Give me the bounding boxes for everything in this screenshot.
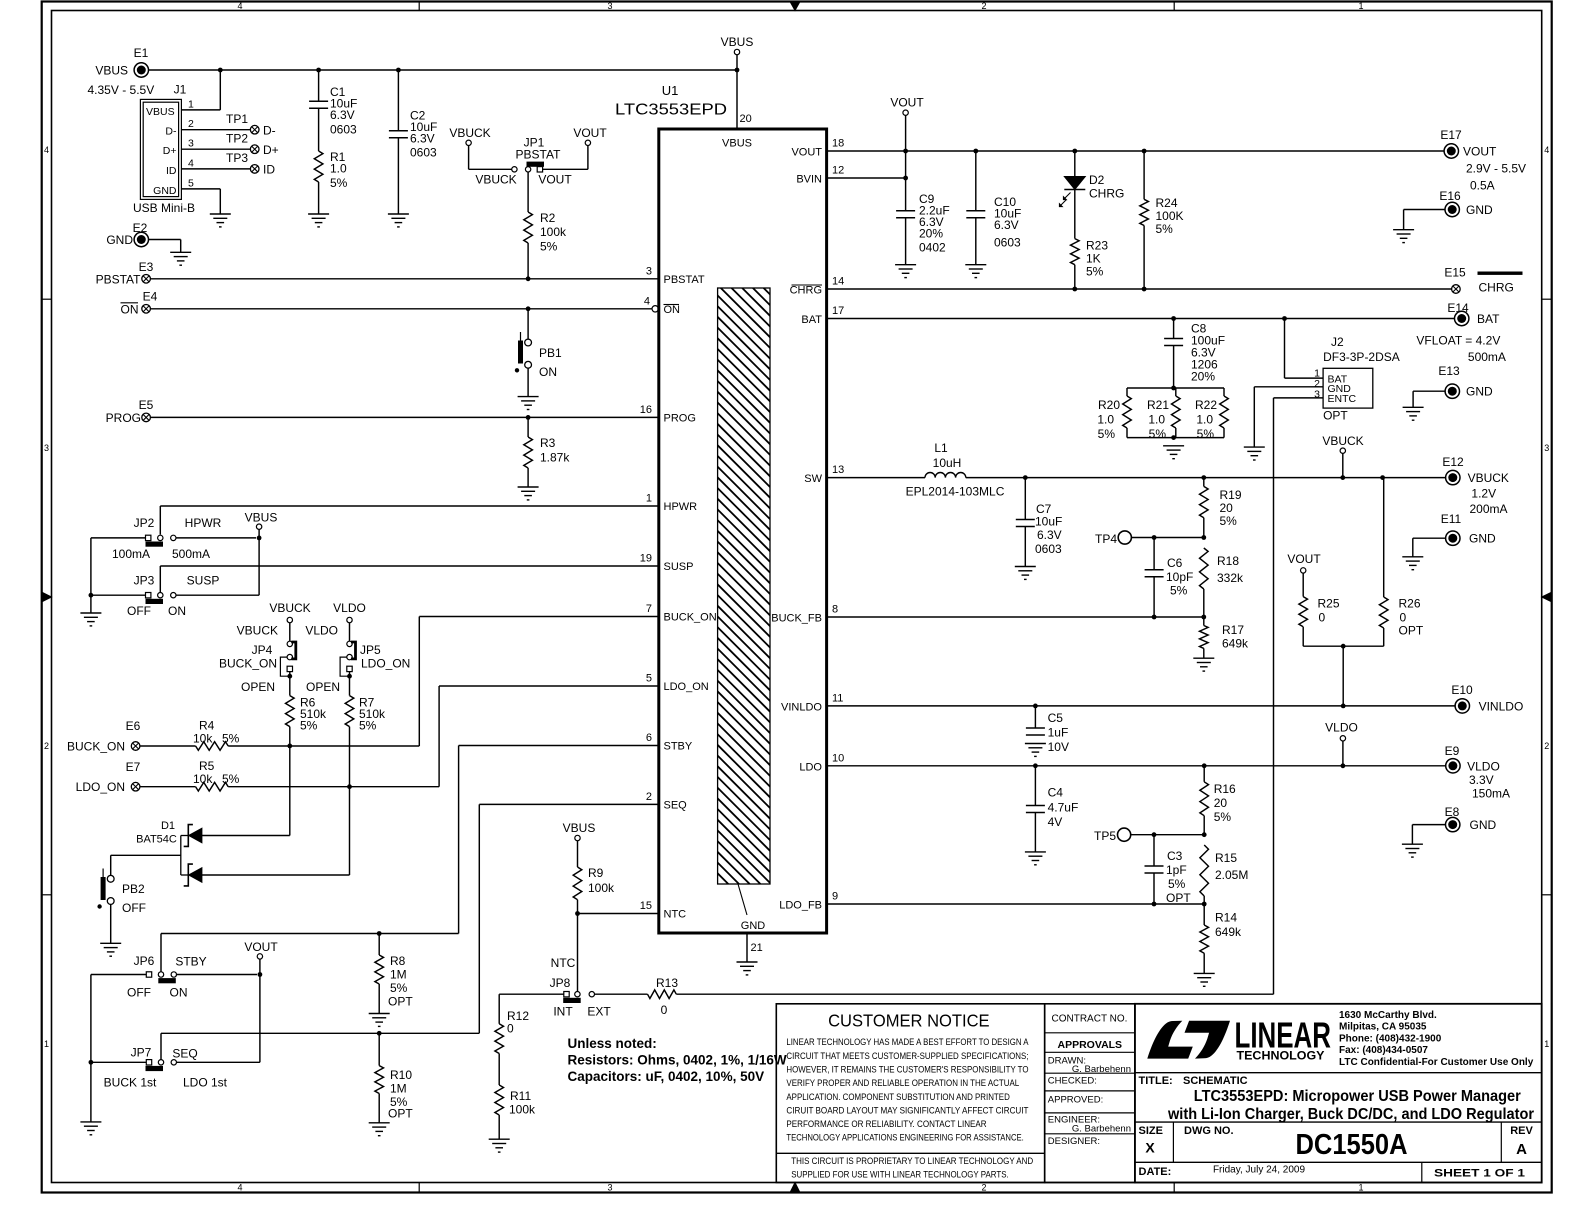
svg-text:20%: 20% bbox=[1191, 370, 1215, 384]
wire C9 to ground bbox=[905, 218, 907, 265]
wire VBUS rail bbox=[148, 69, 737, 71]
wire C4 stub bbox=[1034, 766, 1036, 806]
junction BUCK_FB/C6 bbox=[1152, 615, 1157, 620]
frame right center arrow bbox=[1542, 593, 1551, 602]
capacitor C1 bbox=[309, 101, 328, 108]
svg-text:1pF: 1pF bbox=[1166, 863, 1187, 877]
wire R11 to ground bbox=[498, 1115, 500, 1139]
wire E8 to ground bbox=[1412, 825, 1446, 845]
svg-text:2: 2 bbox=[646, 791, 652, 803]
label PBSTAT JP1 bbox=[516, 147, 562, 161]
turret E12 bbox=[1446, 470, 1460, 484]
junction PROG/R3 bbox=[526, 415, 531, 420]
wire BAT net bbox=[827, 318, 1455, 320]
junction BVIN/C9 bbox=[903, 176, 908, 181]
junction LDO_FB/C3 bbox=[1152, 902, 1157, 907]
svg-text:USB Mini-B: USB Mini-B bbox=[133, 201, 195, 215]
ground U1 bbox=[737, 962, 758, 975]
label C2 bbox=[410, 109, 437, 160]
svg-text:R23: R23 bbox=[1086, 239, 1108, 253]
label C5 bbox=[1048, 711, 1069, 754]
label U1 SUSP pin bbox=[664, 561, 694, 573]
resistor R25 bbox=[1299, 597, 1308, 627]
label R9 bbox=[588, 866, 615, 895]
label LTC3553EPD bbox=[615, 102, 727, 119]
wire R3 to ground bbox=[527, 468, 529, 487]
node VLDO bbox=[1325, 721, 1358, 742]
svg-text:0402: 0402 bbox=[919, 241, 946, 255]
label U1 bbox=[662, 83, 679, 98]
label E2 bbox=[133, 221, 148, 235]
pin 10 label bbox=[832, 752, 844, 764]
label E15 bbox=[1444, 266, 1466, 280]
node VOUT rail bbox=[890, 96, 924, 116]
pin 18 label bbox=[832, 138, 844, 150]
wire J1 pin2 to TP1 bbox=[181, 129, 250, 131]
svg-text:R15: R15 bbox=[1215, 851, 1237, 865]
svg-text:R24: R24 bbox=[1156, 196, 1178, 210]
wire BAT to C8 bbox=[1173, 319, 1175, 339]
svg-text:10uH: 10uH bbox=[933, 456, 962, 470]
svg-text:2: 2 bbox=[44, 741, 49, 751]
label BAT E14 bbox=[1477, 312, 1500, 326]
label GND E13 bbox=[1466, 385, 1493, 399]
pin 4 label bbox=[644, 296, 650, 308]
svg-text:3.3V: 3.3V bbox=[1469, 773, 1494, 787]
label E9 bbox=[1445, 744, 1460, 758]
ground E2 bbox=[170, 252, 191, 265]
label J1 VBUS pin bbox=[146, 106, 175, 118]
label JP3 bbox=[134, 574, 155, 588]
wire E16 to ground bbox=[1404, 210, 1446, 230]
svg-text:5%: 5% bbox=[300, 719, 318, 733]
ground E13 bbox=[1403, 407, 1424, 420]
resistor R22 bbox=[1220, 388, 1229, 438]
wire TP5 line bbox=[1131, 834, 1205, 836]
label C1 bbox=[330, 85, 357, 137]
svg-text:16: 16 bbox=[640, 404, 652, 416]
terminal E5 bbox=[142, 413, 151, 422]
label R25 bbox=[1318, 597, 1340, 625]
wire VBUS to JP2 bbox=[176, 529, 259, 538]
junction CHRG/R24 bbox=[1142, 287, 1147, 292]
label CONTRACT NO. bbox=[1052, 1014, 1128, 1025]
wire R6 to D1 bbox=[289, 727, 291, 836]
ground J1 bbox=[210, 214, 231, 227]
pin 12 label bbox=[832, 165, 844, 177]
label J1 D- pin bbox=[165, 126, 177, 138]
frame top zone ticks bbox=[419, 2, 1174, 11]
svg-text:TP3: TP3 bbox=[226, 151, 248, 165]
svg-text:4: 4 bbox=[44, 145, 49, 155]
svg-text:Milpitas, CA 95035: Milpitas, CA 95035 bbox=[1339, 1022, 1427, 1033]
svg-text:HPWR: HPWR bbox=[664, 501, 698, 513]
svg-text:VBUS: VBUS bbox=[563, 821, 596, 835]
svg-text:R2: R2 bbox=[540, 211, 556, 225]
label E16 bbox=[1439, 189, 1461, 203]
ground R10 bbox=[369, 1123, 390, 1136]
label VBUCK E12 bbox=[1468, 471, 1509, 516]
capacitor C3 bbox=[1145, 866, 1164, 873]
junction CHRG/D2 bbox=[1072, 287, 1077, 292]
svg-text:SEQ: SEQ bbox=[664, 800, 688, 812]
svg-text:VBUCK: VBUCK bbox=[1322, 434, 1363, 448]
svg-text:4: 4 bbox=[237, 1, 242, 11]
label PB1 bbox=[539, 346, 562, 360]
frame bottom zone ticks bbox=[419, 1183, 1174, 1193]
wire JP1 to R2 bbox=[527, 172, 529, 212]
svg-text:100k: 100k bbox=[540, 225, 567, 239]
wire JP3 pin1 left bbox=[91, 594, 146, 596]
label R26 bbox=[1399, 597, 1424, 638]
svg-text:PBSTAT: PBSTAT bbox=[664, 274, 705, 286]
label GND E2 bbox=[106, 233, 133, 247]
wire D1 bottom anode to R7 bbox=[202, 874, 350, 876]
resistor R23 bbox=[1071, 239, 1080, 265]
svg-text:CHECKED:: CHECKED: bbox=[1048, 1075, 1097, 1086]
svg-text:OPT: OPT bbox=[388, 995, 413, 1009]
svg-text:VERIFY PROPER AND RELIABLE OPE: VERIFY PROPER AND RELIABLE OPERATION IN … bbox=[786, 1078, 1019, 1088]
svg-text:VINLDO: VINLDO bbox=[1479, 700, 1524, 714]
svg-text:1.87k: 1.87k bbox=[540, 451, 570, 465]
svg-text:VBUS: VBUS bbox=[146, 106, 175, 118]
label address bbox=[1339, 1010, 1534, 1068]
label R12 bbox=[507, 1009, 529, 1036]
label DRAWN bbox=[1048, 1056, 1086, 1067]
ground PB1 bbox=[518, 397, 539, 410]
svg-text:OPEN: OPEN bbox=[241, 680, 275, 694]
wire JP7 pin1 left bbox=[91, 1061, 146, 1063]
label VOUT pos JP1 bbox=[538, 173, 572, 187]
svg-text:20: 20 bbox=[1220, 501, 1234, 515]
node VOUT R25 bbox=[1287, 552, 1321, 573]
label OFF JP6 bbox=[127, 986, 151, 1000]
label D+ TP2 bbox=[263, 143, 279, 157]
resistor R12 bbox=[495, 1024, 504, 1054]
svg-text:ID: ID bbox=[166, 165, 177, 177]
logo TECHNOLOGY wordmark bbox=[1237, 1050, 1325, 1062]
label ON PB1 bbox=[539, 365, 557, 379]
label JP7 bbox=[131, 1046, 152, 1060]
pin 9 label bbox=[832, 891, 838, 903]
wire VOUT JP6 to JP7 bbox=[177, 975, 260, 1063]
label SIZE bbox=[1139, 1125, 1163, 1137]
svg-text:R4: R4 bbox=[199, 719, 215, 733]
svg-text:CHRG: CHRG bbox=[1089, 187, 1124, 201]
svg-text:LTC3553EPD: LTC3553EPD bbox=[615, 102, 727, 119]
svg-text:BVIN: BVIN bbox=[796, 174, 822, 186]
node VBUS R9 bbox=[563, 821, 596, 841]
label LDO_ON E7 bbox=[76, 780, 125, 794]
turret E8 bbox=[1446, 817, 1460, 831]
svg-text:100mA: 100mA bbox=[112, 547, 150, 561]
junction VINLDO/R25 bbox=[1341, 704, 1346, 709]
junction LDO/C4 bbox=[1033, 763, 1038, 768]
svg-text:D-: D- bbox=[165, 126, 177, 138]
label R13 value bbox=[661, 1003, 668, 1017]
junction LDO/VLDO node bbox=[1341, 763, 1346, 768]
svg-text:332k: 332k bbox=[1217, 571, 1244, 585]
ground E16 bbox=[1393, 230, 1414, 243]
svg-text:5%: 5% bbox=[1098, 427, 1116, 441]
junction JP2/VBUS bbox=[257, 536, 262, 541]
resistor R6 bbox=[286, 696, 295, 727]
label REV A bbox=[1516, 1141, 1527, 1158]
label NTC JP8 bbox=[551, 956, 576, 970]
svg-text:VFLOAT = 4.2V: VFLOAT = 4.2V bbox=[1416, 334, 1500, 348]
label R2 bbox=[540, 211, 567, 254]
terminal E6 bbox=[131, 742, 140, 751]
label REV bbox=[1510, 1125, 1533, 1137]
logo Linear Technology mark bbox=[1147, 1021, 1230, 1059]
svg-text:SIZE: SIZE bbox=[1139, 1125, 1163, 1137]
resistor R17 bbox=[1200, 617, 1209, 648]
wire R2 to PBSTAT bbox=[527, 243, 529, 279]
svg-text:ON: ON bbox=[170, 986, 188, 1000]
label R20 bbox=[1097, 398, 1120, 441]
capacitor C8 bbox=[1164, 339, 1183, 346]
svg-text:20: 20 bbox=[1214, 796, 1228, 810]
svg-text:21: 21 bbox=[751, 942, 763, 954]
ground R8 bbox=[369, 1014, 390, 1027]
wire VBUCK rail bbox=[966, 477, 1446, 479]
junction VBUS/C2 bbox=[396, 68, 401, 73]
label 500mA JP2 bbox=[172, 547, 210, 561]
label U1 CHRG pin bbox=[790, 285, 822, 297]
wire J1 pin3 to TP2 bbox=[181, 148, 250, 150]
capacitor C6 bbox=[1145, 570, 1164, 577]
svg-text:PB1: PB1 bbox=[539, 346, 562, 360]
svg-text:8: 8 bbox=[832, 604, 838, 616]
svg-text:6.3V: 6.3V bbox=[1037, 528, 1062, 542]
pin 16 label bbox=[640, 404, 652, 416]
label R14 bbox=[1215, 911, 1242, 940]
svg-text:GND: GND bbox=[153, 185, 177, 197]
customer notice footer bbox=[791, 1156, 1033, 1180]
wire C10 to ground bbox=[975, 218, 977, 265]
junction VBUCK/C7 bbox=[1023, 475, 1028, 480]
svg-text:R26: R26 bbox=[1399, 597, 1421, 611]
svg-text:JP4: JP4 bbox=[252, 643, 273, 657]
label SUSP JP3 bbox=[187, 574, 220, 588]
wire C3 to LDO_FB bbox=[1153, 873, 1155, 904]
svg-text:1K: 1K bbox=[1086, 252, 1101, 266]
svg-text:6.3V: 6.3V bbox=[410, 132, 435, 146]
label D1 bbox=[161, 820, 175, 832]
svg-text:D-: D- bbox=[263, 124, 276, 138]
note unless noted bbox=[568, 1036, 787, 1084]
label VLDO pos JP5 bbox=[305, 624, 338, 638]
svg-text:100k: 100k bbox=[588, 881, 615, 895]
wire U1 GND pin 21 bbox=[746, 933, 748, 962]
svg-text:14: 14 bbox=[832, 276, 844, 288]
svg-text:TP2: TP2 bbox=[226, 132, 248, 146]
label J1 bbox=[174, 83, 187, 97]
label SHEET bbox=[1434, 1167, 1525, 1179]
label C10 bbox=[994, 195, 1021, 250]
label DRAWN name bbox=[1072, 1064, 1131, 1075]
wire R14 to ground bbox=[1203, 953, 1205, 973]
label U1 VOUT pin bbox=[791, 147, 822, 159]
svg-text:JP2: JP2 bbox=[134, 516, 155, 530]
svg-text:VOUT: VOUT bbox=[1463, 145, 1497, 159]
pin 11 label bbox=[832, 693, 843, 705]
node VBUS JP2 bbox=[245, 511, 278, 530]
pin 3 label J2 bbox=[1314, 389, 1320, 401]
wire NTC to JP8 bbox=[577, 914, 579, 992]
label R16 bbox=[1214, 782, 1236, 824]
customer notice body bbox=[786, 1037, 1029, 1142]
pushbutton PB2 bbox=[97, 869, 114, 909]
label JP4 bbox=[252, 643, 273, 657]
junction VBUCK/node bbox=[1340, 475, 1345, 480]
ground R3 bbox=[518, 487, 539, 500]
capacitor C2 bbox=[389, 131, 408, 138]
svg-text:VBUCK: VBUCK bbox=[1468, 471, 1509, 485]
wire junction to VINLDO bbox=[1342, 646, 1344, 706]
svg-text:10: 10 bbox=[832, 752, 844, 764]
svg-text:Phone: (408)432-1900: Phone: (408)432-1900 bbox=[1339, 1033, 1442, 1044]
svg-text:BUCK_FB: BUCK_FB bbox=[771, 613, 822, 625]
wire JP2 pin1 to ground rail bbox=[91, 538, 146, 613]
label ON JP6 bbox=[170, 986, 188, 1000]
wire SEQ net bbox=[161, 804, 659, 1059]
svg-text:JP6: JP6 bbox=[134, 954, 155, 968]
svg-text:OFF: OFF bbox=[122, 901, 146, 915]
label R18 bbox=[1217, 554, 1244, 585]
svg-text:STBY: STBY bbox=[664, 741, 693, 753]
svg-text:BAT54C: BAT54C bbox=[136, 834, 177, 846]
svg-text:5%: 5% bbox=[390, 981, 408, 995]
junction VINLDO/C5 bbox=[1033, 704, 1038, 709]
pin 2 label bbox=[646, 791, 652, 803]
jumper JP4 bbox=[280, 641, 295, 676]
svg-text:SEQ: SEQ bbox=[172, 1047, 197, 1061]
junction TP4/C6 bbox=[1152, 535, 1157, 540]
wire C6 to BUCK_FB bbox=[1153, 577, 1155, 617]
label ID TP3 bbox=[263, 163, 275, 177]
label R6 bbox=[300, 696, 327, 733]
pin 2 label J1 bbox=[188, 118, 194, 130]
pin 20 label bbox=[740, 113, 752, 125]
junction VOUT/C10 bbox=[973, 149, 978, 154]
ground C4 bbox=[1025, 852, 1046, 865]
resistor R5 bbox=[196, 782, 229, 791]
label OPEN JP4 bbox=[241, 680, 275, 694]
approvals column box bbox=[1045, 1004, 1135, 1183]
label R5 bbox=[193, 759, 240, 786]
svg-text:5%: 5% bbox=[1156, 222, 1174, 236]
svg-text:R5: R5 bbox=[199, 759, 215, 773]
junction rail/ground bbox=[1171, 435, 1176, 440]
svg-text:Friday, July 24, 2009: Friday, July 24, 2009 bbox=[1213, 1165, 1306, 1176]
wire JP8 pin3 to R13 bbox=[595, 993, 648, 995]
svg-text:APPROVED:: APPROVED: bbox=[1048, 1094, 1103, 1105]
svg-text:OFF: OFF bbox=[127, 604, 151, 618]
svg-text:GND: GND bbox=[1466, 203, 1493, 217]
svg-text:J1: J1 bbox=[174, 83, 187, 97]
svg-text:5%: 5% bbox=[1149, 427, 1167, 441]
wire BVIN net bbox=[827, 177, 906, 179]
wire VOUT to C10 bbox=[975, 151, 977, 211]
label VBUS E1 bbox=[95, 64, 128, 78]
svg-text:0.5A: 0.5A bbox=[1470, 179, 1495, 193]
svg-text:R21: R21 bbox=[1147, 398, 1169, 412]
IC U1 LTC3553EPD body bbox=[122, 129, 1360, 933]
svg-text:11: 11 bbox=[832, 693, 843, 705]
pin 7 label bbox=[646, 603, 652, 615]
svg-text:10pF: 10pF bbox=[1166, 570, 1193, 584]
svg-text:E9: E9 bbox=[1445, 744, 1460, 758]
jumper JP3 bbox=[146, 593, 177, 605]
label E4 bbox=[143, 290, 158, 304]
junction SEQ/R10 bbox=[377, 1031, 382, 1036]
connector J1 USB Mini-B bbox=[140, 99, 181, 199]
svg-text:3: 3 bbox=[44, 443, 49, 453]
svg-text:1M: 1M bbox=[390, 968, 407, 982]
svg-text:VBUS: VBUS bbox=[245, 511, 278, 525]
wire VINLDO net bbox=[827, 705, 1456, 707]
label JP5 bbox=[360, 643, 381, 657]
svg-text:VOUT: VOUT bbox=[538, 173, 572, 187]
svg-text:U1: U1 bbox=[662, 83, 679, 98]
wire E6 to R4 bbox=[140, 745, 196, 747]
svg-text:5%: 5% bbox=[1197, 427, 1215, 441]
svg-text:LINEAR: LINEAR bbox=[1235, 1015, 1332, 1056]
svg-text:2.9V - 5.5V: 2.9V - 5.5V bbox=[1466, 162, 1526, 176]
svg-text:CIRCUIT THAT MEETS CUSTOMER-SU: CIRCUIT THAT MEETS CUSTOMER-SUPPLIED SPE… bbox=[786, 1051, 1028, 1061]
svg-text:0603: 0603 bbox=[330, 123, 357, 137]
junction VOUT/D2 bbox=[1072, 149, 1077, 154]
label R1 bbox=[330, 150, 348, 190]
label VFLOAT bbox=[1416, 334, 1500, 348]
label U1 SW pin bbox=[804, 473, 822, 485]
svg-text:12: 12 bbox=[832, 165, 844, 177]
ground C10 bbox=[965, 265, 986, 278]
label U1 BVIN pin bbox=[796, 174, 822, 186]
junction VBUCK/R19 bbox=[1201, 475, 1206, 480]
label R7 bbox=[359, 696, 386, 733]
svg-text:R19: R19 bbox=[1220, 488, 1242, 502]
customer notice title bbox=[828, 1011, 990, 1031]
svg-text:VBUCK: VBUCK bbox=[269, 601, 310, 615]
ground E11 bbox=[1402, 557, 1423, 570]
label 500mA E14 bbox=[1468, 350, 1506, 364]
resistor R4 bbox=[196, 742, 229, 751]
resistor R20 bbox=[1123, 388, 1132, 438]
label VBUCK pos JP4 bbox=[237, 624, 278, 638]
svg-text:5%: 5% bbox=[1168, 877, 1186, 891]
wire VOUT to C9 bbox=[905, 151, 907, 211]
test point TP1 bbox=[226, 112, 259, 134]
ground C1/R1 bbox=[308, 214, 329, 227]
capacitor C9 bbox=[896, 211, 915, 218]
wire R8 to ground bbox=[378, 984, 380, 1014]
svg-text:LDO_ON: LDO_ON bbox=[664, 681, 709, 693]
junction BAT/C8 bbox=[1171, 316, 1176, 321]
svg-text:TP1: TP1 bbox=[226, 112, 248, 126]
svg-text:5: 5 bbox=[646, 673, 652, 685]
pin 6 label bbox=[646, 732, 652, 744]
pin 21 label bbox=[751, 942, 763, 954]
connector J2 bbox=[1323, 368, 1373, 408]
label GND E16 bbox=[1466, 203, 1493, 217]
svg-text:3: 3 bbox=[607, 1, 612, 11]
wire R9 to NTC bbox=[577, 900, 579, 914]
label JP8 bbox=[550, 976, 571, 990]
svg-text:OPT: OPT bbox=[1399, 624, 1424, 638]
wire VBUCK to JP4 bbox=[289, 623, 291, 642]
